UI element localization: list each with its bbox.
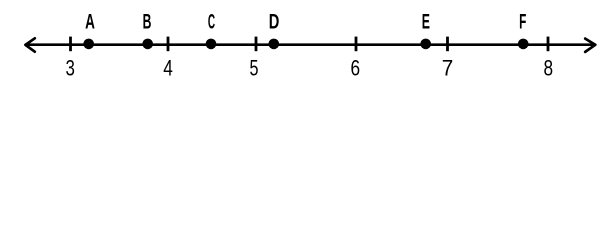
number line axis [27,43,595,46]
svg-text:3: 3 [66,56,75,81]
tick 8 [547,37,550,52]
svg-text:A: A [85,10,95,33]
point F dot [518,39,529,50]
svg-text:6: 6 [351,56,361,81]
tick 6 [355,37,358,52]
right arrowhead [585,39,595,52]
svg-text:D: D [269,10,280,33]
svg-text:4: 4 [163,56,173,81]
left arrowhead [25,38,34,51]
svg-text:E: E [422,10,430,33]
point B dot [142,39,153,50]
svg-text:8: 8 [544,56,554,81]
svg-text:B: B [143,10,152,33]
svg-text:7: 7 [442,56,454,81]
point E dot [420,39,431,50]
svg-text:F: F [519,10,526,33]
point D dot [269,39,280,50]
svg-text:C: C [208,10,215,33]
point C dot [206,39,217,50]
tick 7 [446,37,449,52]
svg-text:5: 5 [250,56,259,81]
tick 5 [255,37,258,52]
point A dot [83,39,94,50]
tick 3 [69,37,72,52]
tick 4 [167,37,170,52]
